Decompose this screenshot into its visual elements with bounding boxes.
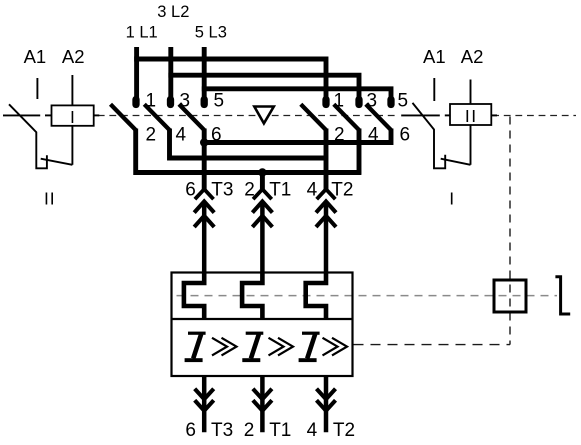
svg-text:1 L1: 1 L1 — [126, 24, 158, 42]
svg-text:4: 4 — [176, 124, 187, 145]
right aux contact blade — [413, 103, 446, 168]
svg-text:4: 4 — [368, 124, 379, 145]
svg-text:T2: T2 — [333, 420, 355, 441]
right coil A2 wire bottom — [470, 125, 472, 165]
right coil A1 stub — [433, 78, 435, 101]
svg-text:1: 1 — [334, 90, 345, 111]
connector T2 fork — [317, 189, 336, 199]
left aux contact blade — [9, 104, 47, 168]
output wire T3 with unplug arrows — [195, 376, 214, 432]
left coil right stub — [94, 114, 100, 116]
svg-text:5 L3: 5 L3 — [195, 24, 227, 42]
wire L3 vertical — [202, 47, 207, 104]
svg-text:A2: A2 — [461, 46, 484, 67]
busbar L3 to right contactor pole 5 — [202, 89, 391, 104]
left aux lead stub to coil — [45, 114, 52, 116]
wire L1 vertical — [134, 47, 139, 104]
svg-text:4: 4 — [307, 180, 318, 201]
busbar L1 to right contactor pole 1 — [134, 59, 326, 104]
contact blade left pole 5 — [179, 104, 204, 130]
terminal nub right pole 3 — [355, 100, 362, 105]
heater element T2 — [306, 273, 326, 320]
overcurrent trip symbol I>> 1 — [185, 332, 237, 363]
connector T2 plug arrows — [316, 201, 336, 272]
svg-text:6: 6 — [211, 124, 222, 145]
wire right pole1 down to T2 connector — [324, 129, 329, 190]
mechanical linkage dashed line — [5, 115, 576, 117]
connector T1 plug arrows — [252, 201, 272, 272]
wire L2 vertical — [168, 47, 173, 104]
svg-text:2: 2 — [146, 124, 157, 145]
svg-text:II: II — [44, 188, 56, 208]
bus T3 (left pole5 to right pole5) — [202, 129, 391, 143]
heater element T1 — [242, 273, 262, 320]
svg-text:T3: T3 — [211, 420, 233, 441]
wire right pole3 down to T1 bus — [357, 129, 362, 175]
overcurrent trip symbol I>> 3 — [299, 332, 347, 363]
connector T1 fork — [253, 189, 272, 199]
coil K-II box — [52, 105, 94, 125]
dashed trip link to relay — [354, 344, 511, 346]
svg-text:A1: A1 — [423, 46, 446, 67]
svg-text:5: 5 — [398, 90, 409, 111]
contact blade left pole 1 — [111, 104, 136, 130]
svg-text:5: 5 — [214, 90, 225, 111]
svg-text:A2: A2 — [62, 46, 85, 67]
right aux contact fixed lead — [401, 114, 440, 116]
wire left pole3 down + bus T2 (to right pole1) — [170, 129, 329, 159]
left coil A1 stub — [36, 78, 38, 99]
svg-text:2: 2 — [244, 420, 255, 441]
contact blade right pole 5 — [366, 104, 391, 130]
connector T3 fork — [195, 189, 214, 199]
svg-text:I: I — [449, 188, 454, 208]
svg-text:6: 6 — [400, 124, 411, 145]
svg-text:3 L2: 3 L2 — [157, 3, 189, 21]
svg-text:2: 2 — [244, 180, 255, 201]
overcurrent trip symbol I>> 2 — [242, 332, 293, 363]
connector T3 plug arrows — [194, 201, 214, 272]
junction T3 — [200, 138, 208, 146]
right interlock link — [441, 159, 471, 165]
svg-text:3: 3 — [367, 90, 378, 111]
terminal nub left pole 1 — [132, 100, 139, 105]
svg-text:T1: T1 — [269, 180, 291, 201]
terminal nub right pole 5 — [387, 100, 394, 105]
wire left pole1 down + bus T1 (to right pole3) — [136, 129, 362, 173]
right coil A2 wire top — [470, 80, 472, 105]
relay section divider — [172, 318, 353, 320]
dashed vertical link — [509, 117, 511, 345]
coil K-I box — [450, 104, 491, 125]
svg-text:6: 6 — [185, 420, 196, 441]
svg-text:1: 1 — [146, 90, 157, 111]
terminal nub right pole 1 — [322, 100, 329, 105]
interface square — [494, 280, 526, 312]
right coil right stub — [491, 114, 497, 116]
svg-text:T2: T2 — [331, 180, 353, 201]
output wire T1 with unplug arrows — [253, 376, 272, 432]
heater element T3 — [184, 273, 204, 320]
right aux contact lead mask — [398, 113, 450, 118]
output wire T2 with unplug arrows — [317, 376, 336, 432]
left interlock link — [41, 159, 73, 165]
junction T1 — [258, 168, 266, 176]
terminal nub left pole 5 — [201, 100, 208, 105]
svg-text:T3: T3 — [211, 180, 233, 201]
svg-text:6: 6 — [185, 180, 196, 201]
contact blade right pole 1 — [301, 104, 326, 130]
svg-text:II: II — [465, 106, 478, 126]
svg-text:3: 3 — [180, 90, 191, 111]
terminal nub left pole 3 — [167, 100, 174, 105]
svg-text:4: 4 — [307, 420, 318, 441]
svg-text:I: I — [70, 107, 75, 127]
overload relay box F1 — [172, 273, 353, 377]
overload relay actuation dashed line (gray) — [177, 295, 558, 297]
linkage triangle — [254, 107, 273, 124]
left aux contact lead mask — [3, 113, 52, 118]
manual actuator bracket — [555, 277, 570, 314]
wire T1 drop — [260, 173, 265, 190]
left coil A2 wire top — [71, 75, 73, 105]
svg-text:2: 2 — [334, 124, 345, 145]
left coil A2 wire bottom — [71, 126, 73, 165]
contact blade right pole 3 — [334, 104, 359, 130]
busbar L2 to right contactor pole 3 — [168, 75, 359, 104]
contact blade left pole 3 — [144, 104, 169, 130]
wire left pole5 down through junction to T3 connector — [202, 129, 207, 190]
right aux lead stub to coil — [445, 114, 451, 116]
svg-text:A1: A1 — [24, 46, 47, 67]
left aux contact fixed lead — [3, 114, 40, 116]
svg-text:T1: T1 — [269, 420, 291, 441]
